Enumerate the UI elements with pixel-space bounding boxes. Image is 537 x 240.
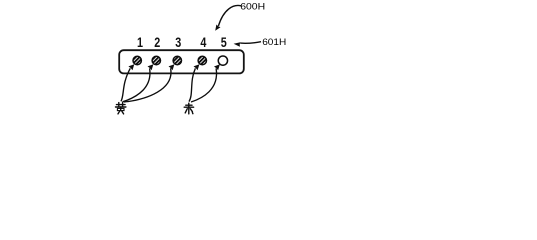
label red kanji [184,103,193,114]
svg-text:5: 5 [221,35,227,50]
curved lead yellow to pin 2 [123,68,150,102]
svg-text:600H: 600H [240,2,265,12]
arrowhead pin 3 [169,64,175,70]
svg-text:601H: 601H [262,37,286,47]
leader arrow 600H head [215,25,220,31]
arrowhead pin 4 [194,64,200,70]
curved lead yellow to pin 1 [121,68,130,101]
leader arrow 600H shaft [218,5,241,26]
leader arrow 601H head [234,42,241,47]
arrowhead pin 2 [148,64,154,70]
curved lead red to pin 4 [189,68,195,101]
pin 2 circle (hatched) [152,56,160,64]
curved lead yellow to pin 3 [124,68,171,102]
label yellow kanji [116,103,126,114]
pin 5 circle (open) [218,56,227,65]
connector housing 601H body [119,50,244,73]
pin 1 circle (hatched) [133,56,141,64]
leader arrow 601H shaft [240,42,261,44]
arrowhead pin 1 [128,64,134,70]
curved lead red to pin 5 [191,68,217,102]
pin 3 circle (hatched) [173,56,181,64]
pin 4 circle (hatched) [198,56,206,64]
svg-text:1: 1 [137,35,143,50]
arrowhead pin 5 [214,64,220,70]
svg-text:3: 3 [175,35,181,50]
svg-text:4: 4 [200,35,206,50]
svg-text:2: 2 [154,35,160,50]
